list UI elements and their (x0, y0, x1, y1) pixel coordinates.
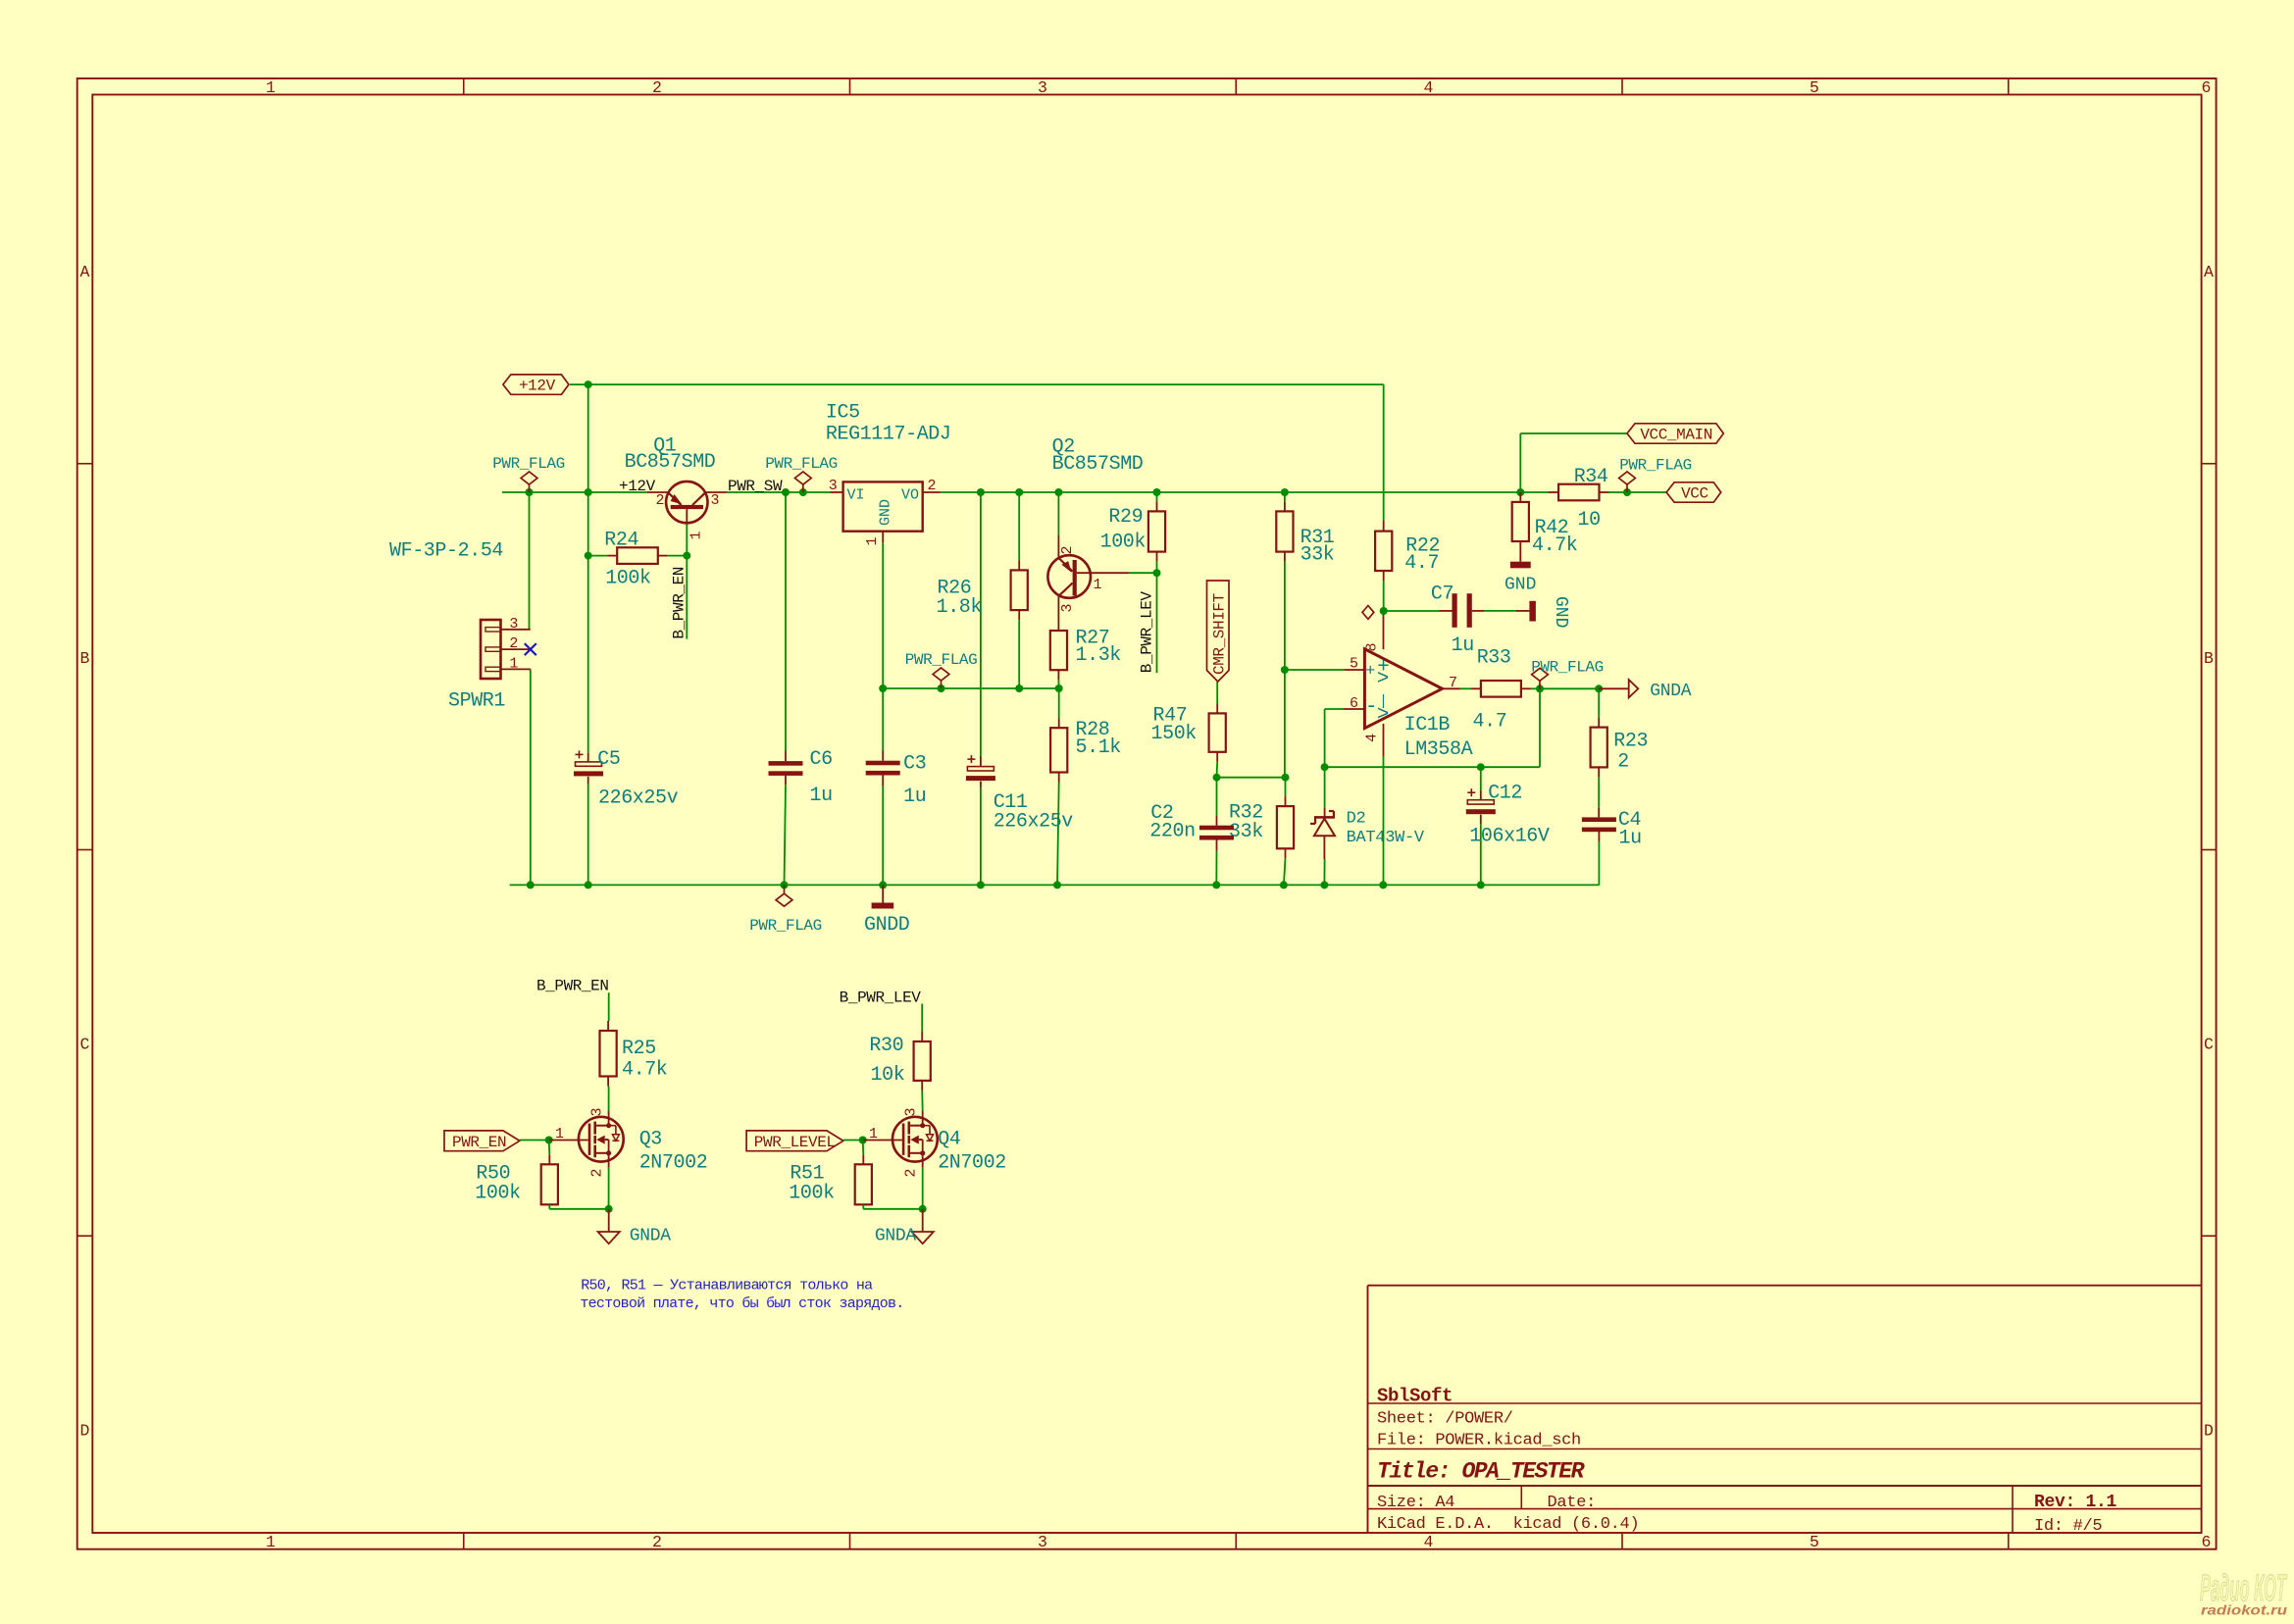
node GNDA / R23 (1595, 685, 1603, 692)
svg-text:2: 2 (655, 492, 664, 509)
svg-text:REG1117-ADJ: REG1117-ADJ (826, 423, 951, 445)
node op-amp pin5 (1281, 666, 1289, 674)
power flag PWR_FLAG5 (1626, 484, 1628, 492)
wire R47 bottom (1216, 762, 1219, 778)
node C11 top (977, 488, 985, 496)
svg-text:SblSoft: SblSoft (1377, 1386, 1453, 1407)
wire pin6 horizontal (1325, 708, 1344, 710)
svg-text:1: 1 (266, 1533, 276, 1551)
svg-text:File: POWER.kicad_sch: File: POWER.kicad_sch (1377, 1431, 1581, 1449)
node GNDD C5 (585, 881, 592, 888)
hierarchical label PWR_LEVEL (746, 1131, 843, 1151)
svg-text:R33: R33 (1477, 646, 1511, 669)
svg-text:2: 2 (903, 1168, 920, 1177)
svg-text:CMR_SHIFT: CMR_SHIFT (1211, 593, 1229, 675)
wire V+ node to C7 (1384, 610, 1440, 612)
svg-text:1u: 1u (810, 785, 833, 807)
svg-text:C7: C7 (1431, 584, 1453, 606)
node PWR_FLAG3 (938, 685, 945, 692)
svg-text:100k: 100k (475, 1183, 520, 1205)
svg-text:4: 4 (1424, 1533, 1434, 1551)
wire output to R23 node (1540, 687, 1599, 689)
wire ADJ rail (883, 687, 1058, 689)
resistor R32 (1277, 806, 1294, 848)
svg-text:5: 5 (1810, 78, 1819, 97)
wire PWR_EN to gate node (520, 1140, 549, 1142)
svg-text:C: C (80, 1036, 90, 1054)
svg-text:PWR_LEVEL: PWR_LEVEL (754, 1134, 836, 1151)
node GNDD R28 (1053, 881, 1061, 888)
svg-text:C12: C12 (1488, 783, 1522, 805)
svg-text:GND: GND (1504, 575, 1536, 594)
title block outline (1367, 1286, 1369, 1533)
svg-text:B_PWR_EN: B_PWR_EN (536, 978, 609, 995)
resistor R25 (600, 1031, 617, 1077)
capacitor C6 (769, 761, 803, 766)
svg-text:PWR_FLAG: PWR_FLAG (749, 917, 822, 935)
wire +12V drop to R22 (1383, 384, 1385, 521)
node R42/R34/VCC_MAIN (1516, 488, 1524, 496)
ground GND at C7 (1516, 610, 1529, 612)
wire +12V rail (570, 383, 1384, 385)
power label +12V (503, 375, 569, 394)
node GNDD op-amp pin4 (1379, 881, 1387, 888)
diode D2 BAT43W-V (1314, 816, 1335, 819)
wire pin6 down (1324, 709, 1326, 767)
svg-text:4: 4 (1364, 734, 1381, 742)
resistor R24 (617, 547, 658, 564)
wire +12V down to SPWR1 pin3 (529, 492, 531, 630)
wire R23 top stub (1598, 688, 1600, 717)
node Q4 gate / R51 (859, 1137, 867, 1144)
svg-text:PWR_FLAG: PWR_FLAG (905, 651, 978, 669)
svg-text:R34: R34 (1574, 466, 1608, 488)
wire R51 to GNDA node (863, 1208, 922, 1210)
node GNDD SPWR1 (527, 881, 535, 888)
transistor Q4 2N7002 (892, 1117, 938, 1162)
wire pin4 down (1383, 756, 1385, 885)
power label VCC (1666, 482, 1721, 502)
ground GND below R42 (1519, 551, 1521, 562)
svg-text:4.7: 4.7 (1473, 710, 1507, 733)
wire Q1 collector to IC5 VI (PWR_SW) (727, 491, 831, 493)
hierarchical label GNDA (1599, 687, 1629, 689)
node GNDD C11 (977, 881, 985, 888)
resistor R47 (1209, 713, 1226, 751)
capacitor C2 (1199, 826, 1234, 831)
node PWR_FLAG1 at +12V (526, 488, 534, 496)
svg-text:R50, R51 — Устанавливаются тол: R50, R51 — Устанавливаются только на (581, 1278, 873, 1294)
node Q4 source / GNDA (919, 1205, 927, 1213)
frame row dividers (77, 463, 93, 465)
svg-text:5: 5 (1810, 1533, 1819, 1551)
wire R51 bottom corner (862, 1204, 864, 1209)
capacitor C4 (1582, 817, 1616, 822)
wire +12V vertical x600 (587, 384, 589, 492)
resistor R27 (1050, 631, 1067, 670)
wire R27 to ADJ rail (1057, 680, 1059, 688)
svg-text:D: D (2204, 1422, 2214, 1441)
svg-text:1u: 1u (903, 786, 926, 808)
wire +12V to Q1 emitter (502, 491, 647, 493)
svg-text:B_PWR_LEV: B_PWR_LEV (1139, 591, 1156, 674)
wire R32 bottom (1284, 858, 1286, 885)
svg-text:3: 3 (509, 616, 518, 633)
svg-text:C3: C3 (903, 753, 926, 776)
svg-text:1: 1 (864, 536, 881, 545)
wire pin5 node down to R32 node (1284, 670, 1286, 778)
svg-text:2: 2 (927, 478, 936, 494)
svg-text:4.7k: 4.7k (1532, 534, 1577, 557)
svg-text:150k: 150k (1151, 723, 1197, 745)
wire Q1 base down (B_PWR_EN) (686, 523, 688, 556)
wire B_PWR_EN stub down (686, 556, 688, 639)
capacitor C7 (1453, 593, 1457, 628)
svg-text:100k: 100k (789, 1183, 834, 1205)
svg-text:Sheet: /POWER/: Sheet: /POWER/ (1377, 1410, 1513, 1429)
svg-text:226x25v: 226x25v (598, 787, 679, 810)
wire R28 top stub (1058, 688, 1060, 718)
regulator IC5 REG1117-ADJ (843, 482, 923, 531)
svg-text:106x16V: 106x16V (1469, 826, 1550, 848)
resistor R29 (1148, 511, 1165, 551)
resistor R33 (1481, 681, 1521, 697)
wire C5 bottom to GNDD rail (587, 785, 589, 886)
svg-text:PWR_FLAG: PWR_FLAG (1619, 457, 1692, 475)
transistor Q2 BC857SMD (1047, 555, 1091, 598)
svg-text:R24: R24 (604, 530, 638, 552)
wire C11 top (980, 492, 982, 756)
wire R47-R32 link (1217, 777, 1286, 779)
svg-text:4.7: 4.7 (1404, 552, 1439, 575)
svg-text:PWR_EN: PWR_EN (452, 1134, 506, 1151)
svg-text:SPWR1: SPWR1 (448, 690, 505, 713)
wire PWR_LEVEL to gate node (843, 1140, 863, 1142)
hierarchical label CMR_SHIFT (1207, 581, 1230, 682)
svg-text:3: 3 (710, 492, 719, 509)
power flag PWR_FLAG4 (784, 885, 786, 893)
power flag PWR_FLAG3 (941, 681, 943, 688)
resistor R34 (1558, 484, 1599, 501)
svg-text:GND: GND (878, 499, 894, 526)
svg-text:A: A (2204, 263, 2214, 281)
resistor R26 (1011, 570, 1028, 610)
svg-text:A: A (80, 263, 90, 281)
svg-text:Id: #/5: Id: #/5 (2034, 1517, 2102, 1536)
svg-text:LM358A: LM358A (1404, 738, 1473, 761)
svg-text:Q4: Q4 (938, 1128, 960, 1150)
svg-text:Rev: 1.1: Rev: 1.1 (2034, 1493, 2117, 1512)
svg-text:D2: D2 (1347, 810, 1366, 829)
wire VCC node to label (1627, 491, 1666, 493)
wire C6 bottom (785, 785, 787, 885)
svg-text:1u: 1u (1619, 827, 1642, 849)
capacitor C11 (967, 767, 994, 771)
node R24 left (585, 552, 592, 560)
svg-text:VCC: VCC (1681, 485, 1708, 503)
resistor R51 (855, 1164, 872, 1204)
svg-text:33k: 33k (1300, 543, 1335, 566)
svg-text:3: 3 (589, 1107, 606, 1116)
title block row lines (1368, 1402, 2202, 1404)
resistor R42 (1512, 502, 1529, 541)
node GNDD D2 (1320, 881, 1328, 888)
wire C12 top stub (1480, 767, 1482, 790)
wire R24 left stub (588, 555, 608, 557)
resistor R31 (1276, 511, 1293, 551)
node +12V top junction (585, 381, 592, 388)
svg-text:BC857SMD: BC857SMD (1052, 453, 1144, 476)
wire C7 right to GND (1484, 610, 1516, 612)
svg-text:2: 2 (589, 1168, 606, 1177)
wire x600 R24 to C5 (587, 556, 589, 753)
svg-text:GND: GND (1551, 596, 1570, 628)
svg-text:B_PWR_EN: B_PWR_EN (671, 567, 688, 639)
wire R22 bottom to V+ node (1383, 581, 1385, 611)
node GNDD C2 (1212, 881, 1220, 888)
wire C2 top (1216, 778, 1218, 816)
wire C2 bottom (1215, 851, 1217, 886)
ground GNDA under Q3 (608, 1209, 610, 1232)
wire R30 to Q4 drain (921, 1091, 924, 1111)
node C6 top (782, 488, 790, 496)
svg-text:7: 7 (1449, 675, 1457, 691)
ground GNDD symbol (882, 885, 884, 902)
wire B_PWR_EN to R25 (608, 992, 610, 1021)
wire R50 to GNDA node (549, 1208, 608, 1210)
transistor Q1 BC857SMD (666, 482, 707, 523)
wire output feedback rail (1325, 766, 1540, 768)
svg-text:1u: 1u (1452, 634, 1474, 657)
wire op-amp out to R33 (1460, 687, 1471, 689)
svg-text:R23: R23 (1613, 730, 1648, 752)
node GNDD C12 (1477, 881, 1485, 888)
wire IC5 GND down (882, 543, 884, 688)
wire C12 bottom (1480, 824, 1482, 885)
wire B_PWR_LEV stub (1156, 573, 1158, 673)
svg-text:тестовой плате, что бы был сто: тестовой плате, что бы был сток зарядов. (580, 1295, 903, 1312)
svg-text:R25: R25 (622, 1038, 656, 1060)
node R26 bottom (1015, 685, 1023, 692)
svg-text:B_PWR_LEV: B_PWR_LEV (840, 990, 922, 1007)
power flag PWR_FLAG2 (802, 484, 804, 492)
wire IC5 VO rail (VCC_MAIN) (941, 491, 1549, 493)
wire R25 to Q3 drain (608, 1087, 610, 1112)
wire C4 bottom (1598, 841, 1600, 885)
svg-text:5.1k: 5.1k (1076, 736, 1121, 759)
svg-text:3: 3 (1059, 603, 1076, 612)
svg-text:Date:: Date: (1548, 1494, 1597, 1512)
svg-text:VO: VO (901, 487, 919, 504)
svg-text:10: 10 (1578, 509, 1601, 532)
power label VCC_MAIN (1627, 424, 1723, 443)
wire R34 to VCC node (1609, 491, 1628, 493)
wire R50 top (548, 1141, 551, 1155)
svg-text:>: > (1377, 704, 1390, 727)
node R27/R28 (1055, 685, 1063, 692)
wire Q2 base to R29 node (1129, 572, 1156, 574)
connector SPWR1 WF-3P-2.54 (481, 620, 501, 679)
resistor R50 (541, 1164, 558, 1204)
wire D2 bottom (1323, 859, 1325, 885)
wire Q2 emitter stub (1057, 492, 1059, 535)
wire R26 top stub (1018, 492, 1020, 560)
title block column lines (1520, 1486, 1522, 1509)
svg-text:1.3k: 1.3k (1076, 644, 1121, 667)
svg-text:R30: R30 (869, 1035, 903, 1057)
svg-text:>: > (1377, 669, 1390, 691)
svg-text:GNDA: GNDA (875, 1227, 917, 1246)
resistor R23 (1591, 728, 1607, 768)
svg-text:WF-3P-2.54: WF-3P-2.54 (389, 540, 503, 563)
node R26 top (1015, 488, 1023, 496)
svg-text:6: 6 (2202, 1533, 2212, 1551)
wire R31 bottom to pin5 node (1284, 562, 1286, 670)
wire C11 bottom (980, 788, 982, 886)
svg-text:VCC_MAIN: VCC_MAIN (1640, 427, 1712, 444)
resistor R22 (1375, 532, 1392, 571)
wire Q3 source down (608, 1167, 610, 1209)
wire SPWR1 pin1 down (530, 669, 532, 885)
unconnected diamond at V+ node (1362, 606, 1374, 620)
svg-text:3: 3 (829, 478, 838, 494)
node GNDD C3/symbol (879, 881, 887, 888)
svg-text:GNDD: GNDD (864, 914, 909, 937)
svg-text:PWR_FLAG: PWR_FLAG (765, 455, 838, 473)
node PWR_FLAG2 (799, 488, 807, 496)
wire R29 bottom stub (1156, 562, 1158, 574)
capacitor C3 (866, 761, 900, 766)
resistor R28 (1050, 728, 1067, 772)
svg-text:100k: 100k (1100, 532, 1146, 554)
wire R32 top stub (1285, 778, 1287, 796)
resistor R30 (914, 1041, 931, 1081)
wire C6 top (785, 492, 787, 751)
transistor Q3 2N7002 (579, 1117, 624, 1162)
svg-text:PWR_FLAG: PWR_FLAG (1531, 659, 1604, 677)
node x600 on +12V (585, 488, 592, 496)
node ADJ/C3 (879, 685, 887, 692)
node Q1 base / R24 (683, 552, 690, 560)
svg-text:Size: A4: Size: A4 (1377, 1494, 1454, 1512)
wire R26 bottom stub (1018, 620, 1020, 688)
svg-text:R29: R29 (1108, 506, 1143, 529)
svg-text:VI: VI (847, 487, 865, 504)
svg-text:C6: C6 (810, 748, 833, 771)
svg-text:BAT43W-V: BAT43W-V (1347, 829, 1425, 847)
svg-text:5: 5 (1350, 656, 1358, 673)
capacitor C5 (576, 762, 602, 766)
wire CMR_SHIFT stem (1216, 682, 1218, 703)
node D2 top (1321, 763, 1329, 771)
node R31 top (1281, 488, 1289, 496)
svg-text:GNDA: GNDA (630, 1227, 672, 1246)
wire R51 top (862, 1141, 865, 1155)
svg-text:GNDA: GNDA (1650, 682, 1692, 701)
wire B_PWR_LEV to R30 (921, 1004, 923, 1033)
node R33 out / PWR_FLAG (1536, 685, 1544, 692)
svg-text:Title: OPA_TESTER: Title: OPA_TESTER (1377, 1459, 1585, 1485)
svg-text:4.7k: 4.7k (622, 1058, 667, 1081)
svg-text:-: - (1365, 696, 1378, 719)
power flag PWR_FLAG1 (529, 484, 531, 492)
node VCC out (1623, 488, 1631, 496)
wire R50 bottom corner (548, 1204, 550, 1209)
node R29 top (1153, 488, 1161, 496)
wire R23-C4 link (1598, 777, 1600, 807)
svg-text:2: 2 (652, 1533, 662, 1551)
svg-text:KiCad E.D.A. kicad (6.0.4): KiCad E.D.A. kicad (6.0.4) (1377, 1515, 1639, 1534)
frame column dividers (463, 78, 465, 95)
svg-text:4: 4 (1424, 78, 1434, 97)
hierarchical label PWR_EN (444, 1131, 520, 1151)
svg-text:D: D (80, 1422, 90, 1441)
svg-text:33k: 33k (1229, 821, 1263, 843)
wire R33 to PWR_FLAG node (1531, 687, 1540, 689)
node R47/C2 (1213, 774, 1221, 782)
svg-text:2N7002: 2N7002 (639, 1152, 708, 1175)
svg-text:IC1B: IC1B (1404, 714, 1451, 736)
wire D2 top stub (1324, 767, 1326, 808)
wire pin5 to op-amp (1285, 669, 1345, 671)
wire VCC_MAIN horizontal (1520, 432, 1627, 434)
wire feedback up to output (1539, 688, 1541, 767)
svg-text:C5: C5 (597, 748, 620, 771)
svg-text:2: 2 (652, 78, 662, 97)
svg-text:PWR_SW: PWR_SW (728, 478, 783, 495)
wire Q4 source down (922, 1167, 924, 1209)
svg-text:radiokot.ru: radiokot.ru (2201, 1603, 2288, 1618)
capacitor C12 (1467, 800, 1494, 804)
svg-text:6: 6 (2202, 78, 2212, 97)
svg-text:BC857SMD: BC857SMD (625, 451, 716, 474)
svg-text:2: 2 (1059, 545, 1076, 554)
svg-text:2: 2 (509, 635, 518, 652)
svg-text:1: 1 (266, 78, 276, 97)
wire R29 top stub (1156, 492, 1158, 501)
power flag PWR_FLAG6 (1539, 681, 1541, 688)
node Q3 gate / R50 (545, 1137, 553, 1144)
node Q2 emitter (1054, 488, 1062, 496)
node op-amp V+ / C7 (1380, 607, 1388, 615)
svg-text:100k: 100k (605, 567, 650, 589)
svg-text:2N7002: 2N7002 (938, 1152, 1006, 1175)
svg-text:226x25v: 226x25v (994, 811, 1074, 834)
svg-text:1: 1 (688, 531, 705, 539)
node Q3 source / GNDA (605, 1205, 613, 1213)
svg-text:B: B (80, 649, 90, 668)
wire C3 top (882, 688, 884, 750)
ground GNDA under Q4 (922, 1209, 924, 1232)
op-amp IC1B LM358A (1364, 649, 1442, 729)
wire C3 bottom (882, 786, 884, 885)
node GNDD C6/PWR_FLAG (781, 881, 789, 888)
svg-text:8: 8 (1364, 642, 1381, 651)
node R32 top (1282, 774, 1290, 782)
svg-text:IC5: IC5 (826, 401, 860, 424)
svg-text:+: + (1365, 663, 1375, 682)
svg-text:6: 6 (1350, 695, 1358, 712)
node GNDD R32 (1280, 881, 1288, 888)
svg-text:1: 1 (509, 655, 518, 672)
wire R31 top stub (1284, 492, 1286, 501)
node Q2 base / R29 (1153, 569, 1161, 577)
svg-text:220n: 220n (1149, 821, 1195, 843)
no-connect X on SPWR1 pin 2 (525, 643, 536, 655)
node C12 top (1477, 763, 1485, 771)
svg-text:10k: 10k (871, 1064, 905, 1087)
svg-text:3: 3 (1038, 78, 1047, 97)
